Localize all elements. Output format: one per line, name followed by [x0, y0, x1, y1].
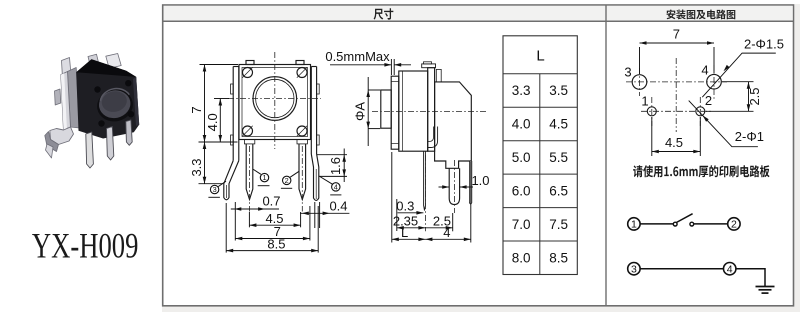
- product photo: tactile switch: [45, 54, 139, 169]
- mounting crosshair v4: [713, 65, 715, 99]
- front view leg 3: [224, 161, 239, 200]
- svg-text:0.4: 0.4: [329, 198, 347, 213]
- front view pin 2 boss: [297, 140, 307, 144]
- mounting hole 4: [707, 74, 722, 89]
- svg-text:6.0: 6.0: [512, 184, 531, 199]
- frame outer border: [163, 5, 794, 306]
- front view dim 7 bottom: [235, 202, 310, 241]
- front view body outline: [239, 65, 311, 140]
- svg-text:5.5: 5.5: [549, 150, 568, 165]
- svg-text:7: 7: [189, 106, 204, 113]
- mounting hole 2: [696, 107, 705, 116]
- mounting hole 1: [647, 107, 656, 116]
- section divider: [605, 5, 607, 306]
- svg-text:8.0: 8.0: [512, 251, 531, 266]
- mounting dim 4.5: [652, 117, 701, 156]
- front view rivet 2: [297, 67, 307, 77]
- svg-text:4: 4: [334, 183, 338, 192]
- side view front plate: [391, 76, 399, 149]
- front view pin 1: [246, 144, 253, 200]
- circuit switch lever: [677, 214, 693, 223]
- front view dim 0.7: [231, 194, 281, 211]
- mounting dim 7: [640, 26, 715, 74]
- svg-text:0.7: 0.7: [262, 194, 280, 209]
- pcb note text: [633, 165, 769, 177]
- side view body: [399, 71, 428, 151]
- side view top tab: [422, 62, 436, 68]
- svg-text:2: 2: [705, 93, 712, 108]
- side view dim 4: [425, 225, 470, 241]
- side view rear housing: [435, 82, 472, 168]
- front view pin label 3: [208, 181, 226, 197]
- front view dim 1.6: [317, 149, 347, 183]
- front view horizontal centerline: [228, 98, 321, 100]
- front view dim 0.4: [300, 198, 349, 228]
- front view button inner circle: [256, 79, 294, 117]
- front view dim 3.3: [189, 142, 237, 184]
- front view dim 7 left: [189, 65, 238, 143]
- svg-text:4: 4: [727, 264, 733, 276]
- svg-text:3.3: 3.3: [189, 158, 204, 176]
- svg-text:5.0: 5.0: [512, 150, 531, 165]
- circuit ground: [756, 287, 775, 294]
- circuit terminal 4: [724, 263, 736, 276]
- side view round pin centerline: [453, 160, 455, 213]
- side view rear leg: [469, 161, 472, 204]
- svg-text:8.5: 8.5: [267, 237, 285, 252]
- side view ext lines: [392, 152, 471, 243]
- svg-text:2-Φ1: 2-Φ1: [735, 129, 764, 144]
- front view dim 4.0: [205, 99, 229, 143]
- circuit switch contact left: [673, 222, 677, 226]
- side view housing top bump: [436, 69, 441, 82]
- svg-text:3.5: 3.5: [549, 83, 568, 98]
- mounting label 2-phi1: [689, 101, 764, 147]
- svg-text:ΦA: ΦA: [352, 102, 367, 121]
- side view button: [381, 90, 391, 128]
- front view pin 1 centerline: [249, 146, 251, 212]
- front view button outer circle: [253, 77, 297, 121]
- side view dim phiA: [352, 77, 380, 146]
- side view dim L: [392, 225, 426, 241]
- svg-text:0.3: 0.3: [396, 199, 414, 214]
- side view round pin: [449, 168, 459, 204]
- svg-text:4.0: 4.0: [512, 117, 531, 132]
- svg-text:2-Φ1.5: 2-Φ1.5: [744, 36, 784, 51]
- circuit switch contact right: [690, 222, 694, 226]
- front view top tabs: [246, 61, 304, 65]
- front view leg 4: [311, 154, 319, 200]
- front view body inner line: [242, 68, 308, 137]
- svg-text:1.0: 1.0: [471, 173, 489, 188]
- mounting crosshair v2: [699, 97, 701, 126]
- side view flat pin: [424, 151, 426, 210]
- svg-text:7.5: 7.5: [549, 217, 568, 232]
- svg-text:4: 4: [443, 225, 450, 240]
- front view right bracket: [311, 67, 319, 155]
- page edge shading: [162, 4, 800, 312]
- circuit terminal 1: [628, 218, 640, 231]
- circuit wire 3-4: [640, 268, 723, 270]
- front view dim 4.5: [249, 211, 300, 227]
- svg-text:4.5: 4.5: [665, 135, 683, 150]
- side view centerline: [372, 110, 488, 112]
- svg-text:1: 1: [262, 173, 266, 182]
- mounting crosshair v1: [651, 97, 653, 126]
- front view left bracket: [231, 67, 239, 161]
- svg-text:L: L: [536, 48, 544, 65]
- circuit terminal 2: [728, 218, 740, 231]
- front view pin label 1: [253, 169, 269, 185]
- svg-text:8.5: 8.5: [549, 251, 568, 266]
- front view dim 8.5: [226, 203, 318, 253]
- svg-text:2.5: 2.5: [747, 87, 762, 105]
- front view pin label 2: [281, 171, 299, 188]
- svg-text:2: 2: [731, 219, 737, 231]
- svg-text:YX-H009: YX-H009: [32, 226, 138, 266]
- svg-text:3: 3: [631, 264, 637, 276]
- mounting dim 2.5: [706, 82, 762, 112]
- mounting centerline v: [675, 58, 677, 132]
- svg-text:7.0: 7.0: [512, 217, 531, 232]
- mounting crosshair v3: [639, 68, 641, 96]
- svg-text:3.3: 3.3: [512, 83, 531, 98]
- front view pin label 4: [319, 176, 341, 195]
- mounting label 2-phi1.5: [702, 36, 784, 97]
- mounting hole labels: [624, 63, 712, 109]
- L table: [503, 36, 577, 275]
- svg-text:4.0: 4.0: [205, 113, 220, 131]
- svg-text:4: 4: [701, 63, 708, 78]
- svg-text:3: 3: [213, 185, 217, 194]
- circuit terminal 3: [628, 263, 640, 276]
- svg-text:1: 1: [641, 94, 648, 109]
- svg-text:6.5: 6.5: [549, 184, 568, 199]
- front view pin 2 centerline: [301, 146, 303, 212]
- side view dim 0.3: [396, 199, 423, 215]
- svg-text:2: 2: [285, 176, 289, 185]
- header label chicun: [374, 8, 394, 19]
- side view bracket plate: [428, 68, 435, 152]
- svg-text:0.5mmMax: 0.5mmMax: [325, 49, 390, 64]
- mounting centerline h34: [626, 81, 727, 83]
- header band: [163, 6, 794, 21]
- side view dim 1.0: [439, 173, 490, 189]
- side view dim 2.5: [425, 213, 452, 229]
- front view rivet 1: [242, 67, 252, 77]
- mounting hole 3: [632, 75, 647, 90]
- front view pin 2: [299, 144, 306, 200]
- svg-text:7: 7: [673, 26, 680, 41]
- front view pin 1 boss: [244, 140, 254, 144]
- front view vertical centerline: [274, 52, 276, 149]
- svg-text:4.5: 4.5: [549, 117, 568, 132]
- front view rivet 4: [297, 126, 307, 136]
- side view dim 2.35: [393, 213, 426, 229]
- svg-text:L: L: [401, 225, 408, 240]
- circuit wire 2: [694, 223, 728, 225]
- front view rivet 3: [242, 126, 252, 136]
- side view bracket hook: [428, 127, 438, 148]
- header label anzhuang: [667, 10, 736, 20]
- mounting centerline h12: [641, 110, 712, 112]
- model name YX-H009: [32, 226, 138, 266]
- circuit wire 4-gnd: [736, 268, 765, 287]
- svg-text:1.6: 1.6: [328, 157, 343, 175]
- svg-text:1: 1: [631, 219, 637, 231]
- svg-text:3: 3: [624, 65, 631, 80]
- side view dim 0.5mmMax: [325, 49, 411, 75]
- circuit wire 1: [640, 223, 673, 225]
